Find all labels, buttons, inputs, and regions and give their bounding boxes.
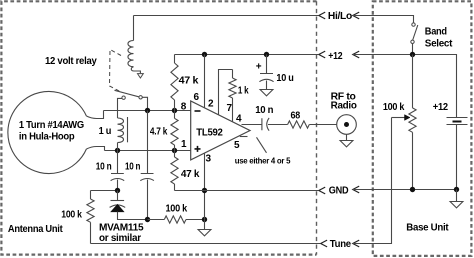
wire plus-input rail y150.5 — [105, 150, 191, 152]
svg-text:6: 6 — [194, 92, 200, 103]
resistor 100k (left) — [90, 191, 92, 200]
op-amp plus sign — [195, 146, 201, 152]
wire 1u coil bottom lead — [117, 143, 119, 151]
svg-text:use either 4 or 5: use either 4 or 5 — [235, 156, 291, 166]
arrow Tune (right) with wire — [353, 240, 359, 247]
svg-text:100 k: 100 k — [166, 204, 188, 215]
node minus rail / relay contact — [145, 108, 150, 113]
wire relay coil bottom lead — [131, 67, 140, 74]
svg-text:47 k: 47 k — [179, 75, 199, 86]
resistor 100k pot (base) — [412, 55, 414, 108]
loop antenna (1 turn hula-hoop) — [8, 91, 87, 173]
svg-text:in Hula-Hoop: in Hula-Hoop — [19, 132, 75, 143]
resistor 47k (bottom) — [174, 151, 176, 158]
capacitor C1 10n lead top — [117, 151, 119, 174]
capacitor C1 10n plates — [111, 174, 125, 181]
node cap1/varactor/100k — [115, 188, 120, 193]
svg-text:4: 4 — [236, 113, 242, 124]
svg-text:10 u: 10 u — [276, 73, 293, 84]
svg-text:1: 1 — [181, 139, 187, 150]
relay mechanical linkage (dashed) — [110, 50, 122, 93]
wire +12 rail — [175, 54, 319, 56]
battery plate short middle — [453, 121, 462, 123]
capacitor 10u plates — [259, 74, 273, 82]
wire node to ground — [204, 220, 206, 230]
wire antenna bottom stub — [86, 147, 104, 151]
svg-text:100 k: 100 k — [383, 102, 405, 113]
varactor D1 MVAM115 lead — [117, 191, 119, 201]
wire antenna top stub — [86, 111, 103, 119]
band select switch arm — [413, 25, 418, 40]
arrow Tune (left) — [321, 240, 327, 247]
node gnd/pot — [410, 187, 415, 192]
resistor 100k (middle) — [148, 219, 165, 221]
svg-text:Base Unit: Base Unit — [406, 223, 449, 234]
battery bottom lead — [456, 125, 458, 190]
arrow GND (left) — [319, 187, 325, 194]
wire left contact to antenna coil top — [118, 98, 122, 118]
ground below RF connector — [340, 141, 353, 147]
arrow Hi/Lo (right) with wire to switch — [353, 12, 359, 19]
wire right contact down to input node — [142, 97, 147, 110]
svg-text:GND: GND — [329, 186, 349, 197]
svg-text:100 k: 100 k — [61, 210, 82, 221]
ground (base unit) — [450, 202, 463, 208]
arrow GND (right) with wire — [353, 186, 359, 193]
svg-text:1 Turn #14AWG: 1 Turn #14AWG — [19, 120, 84, 131]
pot wiper arrow — [392, 117, 406, 119]
battery plate long top — [447, 117, 468, 119]
wire 100k top to gnd-node — [91, 190, 118, 192]
svg-text:68: 68 — [291, 111, 301, 122]
node +12/pin6 — [202, 52, 207, 57]
wire Tune long run — [91, 243, 321, 245]
wire 68 to RF connector — [309, 124, 344, 126]
resistor 47k (top) — [174, 55, 176, 64]
svg-text:10 n: 10 n — [96, 162, 112, 173]
capacitor 10u lead — [266, 55, 268, 74]
svg-text:8: 8 — [181, 102, 187, 113]
svg-text:4.7 k: 4.7 k — [150, 126, 168, 137]
battery plate long bottom — [447, 124, 468, 126]
node middle-100k / pin3 gnd — [202, 217, 207, 222]
RF connector circle — [337, 115, 357, 135]
node band select / +12 — [410, 52, 415, 57]
wire GND rail — [175, 190, 319, 192]
wire Hi/Lo from relay coil to boundary — [134, 15, 319, 17]
wire pin 3 down to ground — [204, 153, 206, 219]
pin 5 stub — [240, 136, 248, 138]
node minus rail / 47k-4.7k junction — [172, 108, 177, 113]
svg-text:5: 5 — [234, 140, 240, 151]
svg-text:12 volt relay: 12 volt relay — [45, 56, 97, 67]
arrow +12 (right) with wire — [353, 51, 359, 58]
arrow Hi/Lo (left) — [319, 12, 325, 19]
varactor D1 triangle — [111, 205, 123, 212]
node varactor/cap2/100k — [145, 217, 150, 222]
svg-text:Tune: Tune — [330, 239, 352, 250]
resistor 68 — [288, 121, 310, 128]
resistor 1k (pin2-pin7) — [232, 70, 234, 79]
node +12/10u — [264, 52, 269, 57]
node pin3/gnd rail — [202, 188, 207, 193]
band select switch bottom contact — [411, 40, 414, 43]
op-amp U1 TL592 triangle — [191, 101, 250, 160]
inductor 1u coil — [118, 118, 124, 143]
svg-text:Band: Band — [425, 26, 447, 37]
ground below 10u — [260, 90, 273, 96]
wire RF connector to ground — [346, 134, 348, 140]
capacitor C1 10n lead bottom — [117, 180, 119, 191]
capacitor C2 10n lead bottom — [147, 180, 149, 220]
RF connector center pin — [344, 122, 349, 127]
node gnd/battery — [454, 187, 459, 192]
antenna unit dashed box — [1, 1, 316, 254]
svg-text:+12: +12 — [328, 51, 343, 62]
wire minus-input rail y110.5 — [104, 110, 191, 112]
svg-text:1 k: 1 k — [238, 85, 249, 96]
capacitor C2 10n plates — [140, 174, 154, 181]
svg-text:Hi/Lo: Hi/Lo — [328, 11, 352, 22]
svg-text:3: 3 — [206, 154, 212, 165]
varactor D1 anode lead — [118, 212, 148, 220]
antenna/base boundary dashed line — [316, 1, 318, 254]
arrow relay coil to ground — [138, 74, 144, 78]
svg-text:TL592: TL592 — [196, 127, 223, 138]
ground (middle bottom) — [198, 230, 211, 236]
wire op-amp output — [242, 124, 262, 126]
capacitor 10n (output) plates — [262, 118, 269, 131]
base unit dashed box — [373, 1, 472, 256]
relay switch arm — [115, 90, 139, 97]
wire cap to 68 resistor — [268, 124, 288, 126]
wire switch to +12 node — [412, 44, 414, 55]
node plus rail / 1u coil bottom — [115, 148, 120, 153]
wire pin 6 to +12 — [204, 55, 206, 108]
capacitor 10u bottom lead — [266, 81, 268, 90]
varactor D1 cathode bar — [111, 200, 125, 202]
relay coil L1 (12 volt relay) — [128, 41, 134, 67]
svg-text:10 n: 10 n — [255, 105, 273, 116]
svg-text:7: 7 — [227, 103, 233, 114]
svg-text:1 u: 1 u — [99, 126, 112, 137]
svg-text:Select: Select — [425, 38, 453, 49]
varactor D1 curved plate — [110, 205, 126, 208]
relay switch contact left — [122, 96, 125, 99]
op-amp minus sign — [195, 110, 201, 112]
svg-text:2: 2 — [208, 98, 214, 109]
wire pin 2 up — [219, 70, 233, 115]
wire relay coil top lead — [133, 16, 135, 41]
wire battery node to ground — [456, 190, 458, 202]
relay switch contact right — [139, 96, 142, 99]
core line of 1u inductor — [127, 117, 129, 142]
svg-text:10 n: 10 n — [125, 162, 140, 173]
node plus rail / 4.7k-47k junction — [172, 148, 177, 153]
band select switch top contact — [412, 23, 415, 26]
arrow +12 (left) — [319, 51, 325, 58]
svg-text:Antenna Unit: Antenna Unit — [8, 224, 63, 235]
capacitor C2 10n lead top (from minus node) — [147, 111, 149, 174]
svg-text:47 k: 47 k — [181, 169, 200, 180]
svg-text:+12: +12 — [433, 102, 449, 113]
svg-text:+: + — [256, 62, 262, 73]
svg-text:Radio: Radio — [331, 101, 357, 112]
wire 100k bottom to Tune line — [90, 222, 92, 243]
svg-text:MVAM115: MVAM115 — [99, 223, 144, 234]
resistor 4.7k — [174, 111, 176, 119]
svg-text:or similar: or similar — [99, 233, 141, 244]
annotation line to use-either note — [257, 137, 267, 153]
